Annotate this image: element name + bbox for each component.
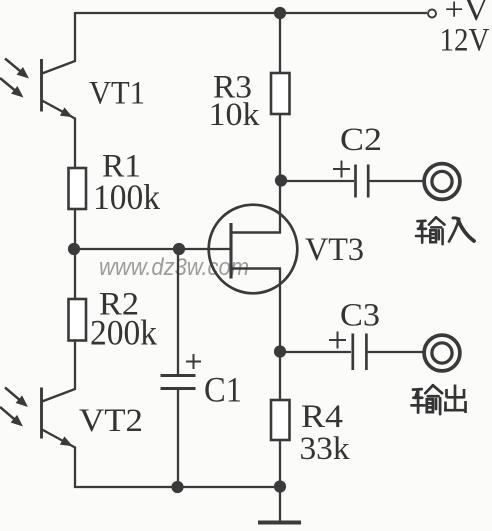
svg-text:12V: 12V [440,23,490,59]
svg-text:VT3: VT3 [305,232,364,268]
svg-text:10k: 10k [209,97,261,133]
svg-text:100k: 100k [93,177,160,217]
svg-text:C3: C3 [340,298,380,334]
svg-text:33k: 33k [300,431,351,467]
svg-text:C2: C2 [340,122,382,158]
svg-text:R4: R4 [301,399,343,435]
svg-text:VT1: VT1 [89,76,145,112]
svg-text:C1: C1 [204,370,242,410]
svg-text:www.dz3w.com: www.dz3w.com [99,254,249,281]
svg-text:200k: 200k [90,313,157,353]
svg-text:VT2: VT2 [79,403,143,439]
